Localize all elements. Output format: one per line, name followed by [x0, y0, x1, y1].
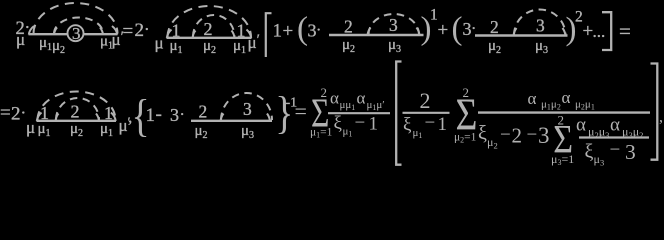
diagram B2: inner dashed arc	[56, 98, 99, 119]
svg-text:ξ: ξ	[585, 141, 594, 163]
equals end row1	[619, 19, 631, 43]
diagram B: outer dashed arc	[168, 6, 252, 37]
diagram B: mu prime right	[248, 32, 260, 52]
diagram A: mu label	[16, 30, 25, 49]
exponent -1	[286, 96, 298, 111]
diagram A: inner arc left tick	[54, 28, 57, 35]
close paren 1	[421, 11, 432, 47]
ellipsis	[593, 22, 606, 41]
equals mid row2	[295, 99, 307, 124]
big fraction: bar	[478, 111, 650, 113]
diagram A: outer dashed arc	[34, 3, 118, 34]
inner fraction numerator	[576, 115, 643, 140]
left ceiling bracket row1	[266, 13, 272, 57]
fraction 2/(xi-1): bar	[403, 112, 450, 114]
svg-text:2: 2	[463, 85, 470, 100]
svg-text:2: 2	[135, 20, 145, 41]
diagram B2: mu label	[26, 118, 35, 137]
equals row1	[123, 21, 134, 42]
diagram A: circled 3	[68, 24, 84, 43]
propagator D: sub mu3	[535, 38, 548, 56]
diagram A: baseline wire left	[29, 33, 68, 35]
open paren 2	[452, 11, 463, 47]
propagator D: sub mu2	[488, 38, 501, 56]
diagram B: sub mu2	[203, 38, 216, 56]
diagram B2: left end hook	[37, 113, 42, 122]
equals row2	[0, 103, 11, 124]
propagator C: label 3 over wire	[389, 15, 398, 35]
close paren 2	[566, 12, 577, 48]
diagram B: label 1 left	[172, 21, 181, 41]
svg-text:2: 2	[558, 113, 565, 128]
svg-text:−: −	[425, 113, 436, 134]
svg-text:2: 2	[512, 124, 523, 148]
diagram B2: sub mu2	[70, 121, 83, 139]
minus sign	[156, 104, 162, 125]
svg-text:−: −	[610, 139, 621, 160]
svg-text:(: (	[452, 11, 463, 47]
propagator E: sub mu2	[195, 123, 208, 141]
svg-text:2: 2	[490, 17, 499, 37]
svg-text:α: α	[330, 89, 339, 108]
svg-text:2: 2	[199, 102, 208, 122]
svg-text:ξ: ξ	[478, 122, 487, 144]
diagram B: left end hook	[167, 30, 172, 39]
svg-text:μ1μ′: μ1μ′	[367, 99, 385, 112]
coefficient 3 dot row2	[170, 105, 185, 125]
fraction 2/(xi-1): denominator	[403, 113, 447, 141]
svg-text:3: 3	[625, 140, 636, 164]
diagram B: label 2 middle	[204, 19, 213, 39]
propagator D: wire	[475, 34, 568, 36]
factor 2 dot row2	[11, 103, 26, 125]
svg-text:3: 3	[538, 123, 550, 148]
diagram B2: label 1 left	[40, 103, 49, 123]
diagram B2: inner arc right tick	[96, 114, 99, 122]
diagram B2: sub mu1 left	[38, 121, 51, 139]
propagator E: label 2 over wire	[199, 102, 208, 122]
propagator C: arc left tick	[368, 28, 371, 36]
propagator E: arc left tick	[221, 114, 224, 122]
diagram B2: mu prime and comma	[119, 108, 133, 136]
propagator C: sub mu3	[388, 37, 401, 55]
big fraction denominator: minus 2 minus 3	[500, 123, 550, 148]
left ceiling bracket row2	[396, 62, 401, 165]
svg-text:·: ·	[316, 22, 321, 39]
big fraction: numerator alpha alpha	[528, 88, 595, 111]
trailing comma	[659, 109, 663, 126]
svg-text:μ1=1: μ1=1	[310, 127, 333, 140]
svg-text:1: 1	[40, 103, 49, 123]
svg-text:1: 1	[273, 21, 283, 42]
diagram B2: label 1 right	[104, 103, 113, 123]
propagator D: label 3 over wire	[536, 16, 545, 36]
svg-text:1: 1	[104, 103, 113, 123]
svg-text:2: 2	[71, 102, 80, 122]
propagator D: dashed arc	[514, 10, 566, 36]
exponent 1	[430, 6, 438, 23]
svg-text:α: α	[576, 115, 586, 136]
svg-text:2: 2	[420, 88, 431, 113]
plus sign	[283, 21, 294, 42]
propagator D: arc right tick	[563, 28, 566, 36]
svg-text:α: α	[562, 88, 571, 107]
svg-text:=: =	[295, 99, 307, 124]
fraction 2/(xi-1): numerator 2	[420, 88, 431, 113]
diagram A: mu prime right	[112, 29, 124, 49]
diagram B2: baseline wire	[37, 120, 117, 122]
svg-text:=: =	[619, 19, 631, 43]
svg-text:·: ·	[180, 107, 185, 124]
sum over mu1	[310, 85, 333, 139]
diagram B: inner arc right tick	[232, 31, 235, 39]
diagram A: right end hook	[112, 26, 117, 35]
diagram B: right end hook	[247, 30, 252, 39]
plus sign 3	[583, 21, 594, 42]
diagram B: inner dashed arc	[193, 15, 235, 37]
sum over mu2	[454, 85, 477, 145]
factor 2 dot (row1 left)	[16, 18, 31, 40]
svg-text:2: 2	[11, 104, 21, 125]
svg-text:μ3=1: μ3=1	[551, 152, 574, 167]
right bracket row2	[651, 64, 658, 160]
svg-text:+: +	[283, 21, 294, 42]
svg-text:3: 3	[536, 16, 545, 36]
inner fraction denominator	[585, 139, 636, 167]
svg-text:2: 2	[344, 17, 353, 37]
diagram B2: inner arc left tick	[56, 114, 59, 122]
svg-text:1: 1	[146, 105, 156, 126]
svg-text:(: (	[297, 11, 308, 47]
svg-text:2: 2	[321, 85, 328, 100]
svg-text:−: −	[527, 124, 538, 145]
diagram B2: label 2 middle	[71, 102, 80, 122]
term 1 row2	[146, 105, 156, 126]
propagator D: label 2 over wire	[490, 17, 499, 37]
close brace	[275, 89, 293, 139]
svg-text:2: 2	[204, 19, 213, 39]
svg-text:−: −	[355, 113, 366, 134]
svg-text:μ: μ	[16, 30, 25, 49]
svg-text:-: -	[156, 104, 162, 125]
svg-text:μ: μ	[26, 118, 35, 137]
fraction alpha/xi: denominator	[334, 113, 379, 139]
propagator E: sub mu3	[241, 123, 254, 141]
svg-text:,: ,	[659, 109, 663, 126]
open paren 1	[297, 11, 308, 47]
plus sign 2	[438, 20, 449, 41]
propagator C: dashed arc	[369, 14, 420, 35]
diagram B: sub mu1 left	[170, 38, 183, 56]
svg-text:−: −	[500, 124, 511, 145]
svg-text:ξ: ξ	[403, 115, 412, 136]
svg-text:·: ·	[144, 20, 150, 39]
diagram B: baseline wire	[167, 37, 252, 39]
propagator E: wire	[191, 120, 272, 122]
svg-text:=: =	[0, 103, 11, 124]
propagator C: wire	[329, 34, 424, 36]
propagator E: label 3 over wire	[243, 99, 252, 119]
svg-text:α: α	[610, 115, 620, 136]
svg-text:ξ: ξ	[334, 113, 343, 134]
svg-text:α: α	[528, 89, 537, 108]
inner fraction bar	[579, 136, 649, 138]
svg-text:3: 3	[170, 105, 179, 125]
fraction alpha/xi: bar	[328, 112, 390, 114]
right bracket row1	[602, 12, 611, 50]
sum over mu3	[551, 113, 574, 168]
diagram B: label 1 right	[237, 21, 246, 41]
propagator E: dashed arc	[221, 93, 272, 120]
diagram B2: sub mu1 right	[100, 121, 113, 139]
svg-text:...: ...	[593, 22, 606, 41]
svg-text:1: 1	[369, 113, 379, 134]
diagram A: sub mu1 right	[100, 34, 113, 52]
diagram A: inner dashed arc	[54, 18, 103, 34]
svg-text:α: α	[357, 89, 366, 108]
propagator D: arc left tick	[514, 28, 517, 36]
coefficient 3 dot	[308, 21, 322, 41]
svg-text:1: 1	[438, 114, 448, 135]
big fraction denominator: xi mu2	[478, 122, 498, 151]
term 1	[273, 21, 283, 42]
open brace	[132, 91, 150, 141]
diagram B: mu label	[155, 34, 164, 53]
diagram A: baseline wire right	[83, 33, 117, 35]
diagram A: sub mu1 mu2 left	[39, 35, 65, 56]
diagram B2: outer dashed arc	[38, 92, 116, 120]
fraction alpha/xi: numerator	[330, 89, 385, 113]
svg-text:+: +	[438, 20, 449, 41]
diagram B: inner arc left tick	[193, 31, 196, 39]
coefficient 3 dot 2	[463, 19, 477, 39]
propagator C: label 2 over wire	[344, 17, 353, 37]
svg-text:3: 3	[243, 99, 252, 119]
diagram A: left end hook	[29, 26, 34, 35]
svg-text:μ: μ	[155, 34, 164, 53]
svg-text:μ2=1: μ2=1	[454, 132, 477, 145]
diagram B2: right end hook	[111, 113, 116, 122]
propagator C: sub mu2	[342, 37, 355, 55]
exponent 2	[575, 9, 583, 26]
svg-text:3: 3	[72, 24, 81, 43]
factor 2 dot (row1 second)	[135, 20, 150, 42]
diagram A: inner arc right tick	[100, 28, 103, 35]
propagator C: arc right tick	[417, 28, 420, 36]
propagator E: arc right tick	[267, 114, 270, 122]
diagram B: sub mu1 right	[233, 38, 246, 56]
svg-text:3: 3	[389, 15, 398, 35]
svg-text:=: =	[123, 21, 134, 42]
